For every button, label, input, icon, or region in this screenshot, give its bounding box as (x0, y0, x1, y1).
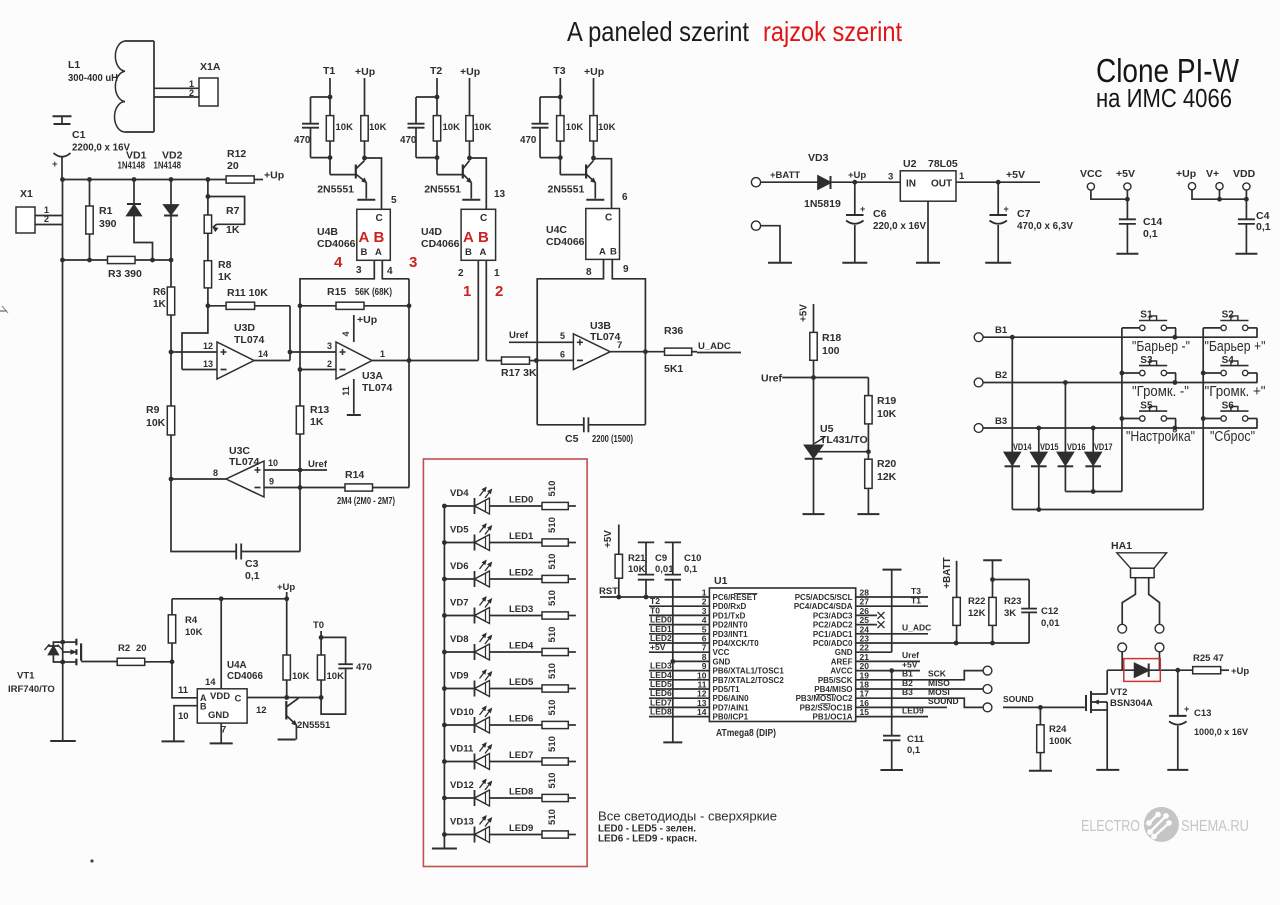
svg-text:LED6: LED6 (509, 714, 533, 725)
svg-text:1: 1 (959, 171, 965, 182)
svg-text:U4B: U4B (317, 226, 338, 238)
svg-text:R17 3K: R17 3K (501, 367, 537, 379)
svg-text:VD13: VD13 (450, 817, 474, 828)
svg-text:R13: R13 (310, 404, 329, 416)
svg-text:78L05: 78L05 (928, 158, 958, 170)
svg-text:470,0 x 6,3V: 470,0 x 6,3V (1017, 220, 1073, 232)
svg-text:PD5/T1: PD5/T1 (713, 685, 741, 694)
svg-text:PB1/OC1A: PB1/OC1A (812, 713, 852, 722)
svg-text:510: 510 (547, 809, 558, 825)
svg-text:1000,0 x 16V: 1000,0 x 16V (1194, 727, 1249, 738)
svg-text:B: B (200, 702, 207, 712)
svg-text:PC0/ADC0: PC0/ADC0 (813, 639, 853, 648)
svg-text:4: 4 (334, 254, 343, 271)
svg-text:10K: 10K (598, 122, 616, 133)
svg-text:"Барьер -": "Барьер -" (1132, 339, 1190, 355)
svg-text:LED1: LED1 (509, 531, 534, 542)
svg-text:VD5: VD5 (450, 525, 469, 536)
svg-text:B: B (465, 247, 472, 258)
svg-text:U_ADC: U_ADC (902, 623, 931, 633)
svg-text:2200 (1500): 2200 (1500) (592, 433, 633, 445)
svg-text:PB5/SCK: PB5/SCK (818, 676, 853, 685)
svg-text:6: 6 (622, 192, 628, 203)
svg-text:10K: 10K (185, 627, 203, 638)
svg-text:VCC: VCC (713, 648, 730, 657)
svg-text:VDD: VDD (210, 691, 230, 702)
svg-text:3: 3 (327, 341, 332, 351)
svg-text:U1: U1 (714, 575, 728, 587)
svg-text:+Up: +Up (460, 66, 480, 78)
svg-text:B: B (478, 229, 489, 246)
svg-text:4: 4 (387, 266, 393, 277)
svg-text:1K: 1K (310, 416, 324, 428)
svg-text:Clone PI-W: Clone PI-W (1096, 52, 1240, 89)
svg-text:R25 47: R25 47 (1193, 653, 1224, 664)
svg-text:R4: R4 (185, 615, 198, 626)
svg-text:R3 390: R3 390 (108, 268, 142, 280)
svg-text:LED6 - LED9 - красн.: LED6 - LED9 - красн. (598, 833, 697, 845)
svg-text:C13: C13 (1194, 708, 1211, 719)
svg-text:9: 9 (623, 264, 629, 275)
svg-text:510: 510 (547, 517, 558, 533)
svg-text:C1: C1 (72, 129, 86, 141)
svg-text:10: 10 (178, 711, 189, 722)
svg-text:B: B (361, 247, 368, 258)
svg-text:R7: R7 (226, 205, 240, 217)
svg-text:VD15: VD15 (1040, 442, 1059, 452)
svg-text:2: 2 (327, 359, 332, 369)
svg-text:C14: C14 (1143, 216, 1162, 228)
svg-text:LED8: LED8 (509, 787, 533, 798)
svg-text:PC2/ADC2: PC2/ADC2 (813, 621, 853, 630)
svg-text:GND: GND (835, 648, 853, 657)
svg-text:PD3/INT1: PD3/INT1 (713, 630, 749, 639)
svg-text:C3: C3 (245, 558, 259, 570)
svg-text:C10: C10 (684, 553, 701, 564)
svg-text:10: 10 (268, 458, 278, 468)
svg-text:2N5551: 2N5551 (424, 184, 461, 196)
svg-text:R36: R36 (664, 325, 683, 337)
svg-text:A: A (480, 247, 487, 258)
svg-text:14: 14 (697, 707, 707, 717)
svg-text:+5V: +5V (603, 530, 614, 548)
svg-text:AVCC: AVCC (830, 667, 852, 676)
svg-text:510: 510 (547, 736, 558, 752)
svg-text:R18: R18 (822, 332, 841, 344)
svg-text:2M4 (2M0 - 2M7): 2M4 (2M0 - 2M7) (337, 495, 395, 507)
svg-text:BSN304A: BSN304A (1110, 698, 1153, 709)
svg-text:510: 510 (547, 481, 558, 497)
svg-text:U3A: U3A (362, 370, 383, 382)
svg-text:Все светодиоды - сверхяркие: Все светодиоды - сверхяркие (598, 809, 777, 824)
svg-text:AREF: AREF (831, 657, 853, 666)
svg-text:+Up: +Up (355, 66, 375, 78)
svg-text:0,01: 0,01 (1041, 618, 1060, 629)
svg-text:A: A (599, 247, 606, 258)
svg-text:C9: C9 (655, 553, 667, 564)
svg-text:100: 100 (822, 345, 840, 357)
svg-text:rajzok szerint: rajzok szerint (763, 16, 902, 47)
svg-text:15: 15 (860, 707, 870, 717)
svg-text:PB4/MISO: PB4/MISO (814, 685, 852, 694)
svg-text:12: 12 (203, 341, 213, 351)
svg-text:12: 12 (256, 705, 267, 716)
svg-text:1: 1 (380, 349, 385, 359)
svg-text:B: B (374, 229, 385, 246)
svg-text:ATmega8 (DIP): ATmega8 (DIP) (716, 727, 776, 739)
svg-text:U4A: U4A (227, 660, 247, 671)
svg-text:1N4148: 1N4148 (118, 161, 146, 172)
svg-text:SOUND: SOUND (928, 696, 959, 706)
svg-text:100K: 100K (1049, 736, 1072, 747)
svg-text:+Up: +Up (848, 170, 866, 181)
svg-text:U4C: U4C (546, 224, 567, 236)
svg-text:R20: R20 (877, 458, 896, 470)
svg-text:3: 3 (409, 254, 417, 271)
svg-text:CD4066: CD4066 (421, 238, 460, 250)
svg-text:R19: R19 (877, 395, 896, 407)
svg-text:R8: R8 (218, 259, 232, 271)
svg-text:"Громк. -": "Громк. -" (1132, 384, 1189, 400)
svg-text:C12: C12 (1041, 606, 1058, 617)
svg-text:2: 2 (495, 283, 503, 300)
svg-text:2N5551: 2N5551 (548, 184, 585, 196)
svg-text:510: 510 (547, 554, 558, 570)
svg-text:GND: GND (208, 710, 229, 721)
svg-text:на ИМС 4066: на ИМС 4066 (1096, 85, 1232, 113)
svg-text:PD2/INT0: PD2/INT0 (713, 621, 749, 630)
svg-text:VT1: VT1 (17, 671, 35, 682)
svg-text:R15: R15 (327, 286, 346, 298)
svg-text:470: 470 (356, 662, 372, 673)
svg-text:+: + (860, 204, 865, 214)
svg-text:CD4066: CD4066 (546, 236, 585, 248)
svg-text:R21: R21 (628, 553, 646, 564)
svg-text:390: 390 (99, 218, 117, 230)
svg-text:+Up: +Up (1231, 666, 1249, 677)
svg-text:10K: 10K (292, 671, 310, 682)
svg-text:LED0: LED0 (509, 495, 533, 506)
svg-text:+: + (1004, 204, 1009, 214)
svg-text:"Громк. +": "Громк. +" (1205, 384, 1266, 400)
svg-text:VDD: VDD (1233, 168, 1256, 180)
svg-text:1N4148: 1N4148 (154, 161, 182, 172)
svg-text:10K: 10K (327, 671, 345, 682)
svg-text:B3: B3 (902, 687, 913, 697)
svg-text:PD4/XCK/T0: PD4/XCK/T0 (713, 639, 760, 648)
svg-text:10K: 10K (443, 122, 461, 133)
svg-text:CD4066: CD4066 (227, 671, 263, 682)
svg-text:TL074: TL074 (362, 382, 393, 394)
svg-text:1: 1 (494, 268, 500, 279)
svg-text:+BATT: +BATT (942, 557, 953, 588)
svg-text:R1: R1 (99, 205, 113, 217)
svg-text:+5V: +5V (650, 642, 666, 652)
svg-text:10K: 10K (877, 408, 897, 420)
svg-text:T3: T3 (553, 65, 565, 77)
svg-text:300-400 uH: 300-400 uH (68, 72, 118, 84)
svg-text:VD3: VD3 (808, 152, 829, 164)
svg-text:R23: R23 (1004, 596, 1021, 607)
svg-text:VD9: VD9 (450, 671, 468, 682)
svg-text:PD0/RxD: PD0/RxD (713, 602, 747, 611)
svg-text:PC4/ADC4/SDA: PC4/ADC4/SDA (794, 602, 853, 611)
svg-text:C11: C11 (907, 734, 925, 745)
svg-text:+: + (1184, 704, 1189, 714)
svg-text:OUT: OUT (931, 179, 952, 190)
svg-text:C7: C7 (1017, 208, 1031, 220)
svg-text:0,1: 0,1 (1256, 221, 1271, 233)
svg-text:5: 5 (391, 195, 397, 206)
svg-text:VD12: VD12 (450, 780, 474, 791)
svg-text:VD4: VD4 (450, 488, 469, 499)
svg-text:14: 14 (258, 349, 268, 359)
svg-text:VD11: VD11 (450, 744, 474, 755)
svg-text:R12: R12 (227, 148, 246, 160)
svg-text:2200,0 x 16V: 2200,0 x 16V (72, 142, 130, 154)
svg-text:6: 6 (560, 350, 565, 360)
svg-text:3: 3 (888, 172, 893, 183)
svg-text:HA1: HA1 (1111, 540, 1132, 552)
svg-text:B2: B2 (995, 370, 1007, 381)
svg-text:T2: T2 (430, 65, 442, 77)
svg-text:+: + (52, 159, 58, 170)
svg-text:2: 2 (189, 88, 194, 98)
svg-text:VD10: VD10 (450, 707, 474, 718)
svg-text:+Up: +Up (584, 66, 604, 78)
svg-text:LED2: LED2 (509, 568, 533, 579)
svg-text:9: 9 (269, 477, 274, 487)
svg-text:10K: 10K (474, 122, 492, 133)
svg-text:Uref: Uref (509, 330, 529, 341)
svg-text:R6: R6 (153, 287, 166, 298)
svg-text:20: 20 (227, 160, 239, 172)
svg-text:0,1: 0,1 (684, 564, 698, 575)
svg-text:U3D: U3D (234, 322, 255, 334)
svg-text:5K1: 5K1 (664, 363, 683, 375)
svg-text:13: 13 (203, 359, 213, 369)
svg-text:1K: 1K (153, 299, 167, 310)
svg-text:10K: 10K (146, 417, 166, 429)
svg-text:VD17: VD17 (1094, 442, 1113, 452)
svg-text:"Барьер +": "Барьер +" (1205, 339, 1266, 355)
svg-text:PB7/XTAL2/TOSC2: PB7/XTAL2/TOSC2 (713, 676, 785, 685)
svg-text:T0: T0 (313, 620, 324, 631)
svg-text:C: C (376, 213, 383, 224)
svg-text:U_ADC: U_ADC (698, 341, 731, 352)
svg-text:TL074: TL074 (590, 331, 621, 343)
svg-text:VT2: VT2 (1110, 687, 1127, 698)
svg-text:470: 470 (294, 135, 311, 146)
svg-text:VD6: VD6 (450, 561, 468, 572)
svg-text:LED5: LED5 (509, 677, 534, 688)
svg-text:PB6/XTAL1/TOSC1: PB6/XTAL1/TOSC1 (713, 667, 785, 676)
svg-text:1: 1 (463, 283, 471, 300)
svg-text:B1: B1 (995, 325, 1008, 336)
svg-text:A paneled szerint: A paneled szerint (567, 16, 749, 47)
svg-text:U2: U2 (903, 158, 917, 170)
svg-text:11: 11 (341, 386, 351, 396)
svg-text:TL074: TL074 (229, 456, 260, 468)
svg-text:14: 14 (205, 677, 216, 688)
svg-text:TL431/TO: TL431/TO (820, 434, 868, 446)
svg-text:C: C (235, 694, 242, 705)
svg-text:CD4066: CD4066 (317, 238, 356, 250)
svg-text:"Сброс": "Сброс" (1210, 429, 1255, 445)
svg-text:2N5551: 2N5551 (297, 720, 331, 731)
svg-text:10K: 10K (336, 122, 354, 133)
svg-text:VD16: VD16 (1067, 442, 1086, 452)
svg-text:510: 510 (547, 773, 558, 789)
svg-text:T1: T1 (323, 65, 335, 77)
svg-text:56K (68K): 56K (68K) (355, 286, 392, 298)
svg-text:510: 510 (547, 663, 558, 679)
svg-text:13: 13 (494, 189, 506, 200)
svg-text:1K: 1K (218, 271, 232, 283)
svg-text:+Up: +Up (277, 582, 295, 593)
svg-text:+5V: +5V (1006, 169, 1025, 181)
svg-text:Uref: Uref (308, 459, 328, 470)
svg-text:2: 2 (44, 214, 49, 224)
svg-text:ELECTRO: ELECTRO (1081, 818, 1140, 835)
svg-text:+5V: +5V (799, 304, 810, 322)
svg-text:T1: T1 (911, 595, 921, 605)
svg-text:VD14: VD14 (1013, 442, 1032, 452)
svg-text:B: B (610, 247, 617, 258)
svg-text:X1: X1 (20, 188, 33, 200)
svg-text:SOUND: SOUND (1003, 694, 1034, 704)
svg-text:LED8: LED8 (650, 707, 672, 717)
svg-text:C: C (480, 213, 487, 224)
svg-text:+Up: +Up (357, 314, 377, 326)
svg-text:VD7: VD7 (450, 598, 468, 609)
svg-text:470: 470 (400, 135, 417, 146)
svg-text:"Настройка": "Настройка" (1126, 429, 1195, 445)
svg-text:0,1: 0,1 (907, 745, 921, 756)
svg-text:510: 510 (547, 627, 558, 643)
svg-text:LED9: LED9 (902, 705, 924, 715)
svg-text:R24: R24 (1049, 724, 1067, 735)
svg-text:10K: 10K (628, 564, 646, 575)
svg-text:PD6/AIN0: PD6/AIN0 (713, 694, 750, 703)
svg-text:+5V: +5V (1116, 168, 1135, 180)
svg-text:LED4: LED4 (509, 641, 534, 652)
svg-text:PD7/AIN1: PD7/AIN1 (713, 703, 750, 712)
svg-text:3: 3 (356, 265, 362, 276)
svg-text:RST: RST (599, 586, 618, 597)
svg-text:IN: IN (906, 179, 916, 190)
svg-text:LED9: LED9 (509, 823, 533, 834)
svg-text:Uref: Uref (761, 373, 783, 385)
svg-text:+BATT: +BATT (770, 170, 800, 181)
svg-text:R9: R9 (146, 404, 160, 416)
svg-text:+Up: +Up (1176, 168, 1196, 180)
svg-text:510: 510 (547, 700, 558, 716)
svg-text:4: 4 (341, 331, 351, 336)
svg-text:20: 20 (136, 643, 147, 654)
svg-text:12K: 12K (968, 608, 986, 619)
svg-text:PC6/RESET: PC6/RESET (713, 593, 758, 602)
svg-text:2: 2 (458, 268, 464, 279)
svg-text:PD1/TxD: PD1/TxD (713, 611, 746, 620)
svg-text:10K: 10K (369, 122, 387, 133)
svg-text:TL074: TL074 (234, 334, 265, 346)
svg-text:0,1: 0,1 (245, 570, 260, 582)
svg-text:LED7: LED7 (509, 750, 533, 761)
svg-text:C6: C6 (873, 208, 887, 220)
svg-text:8: 8 (586, 267, 592, 278)
svg-text:C: C (605, 213, 612, 224)
svg-text:5: 5 (560, 331, 565, 341)
svg-text:PC5/ADC5/SCL: PC5/ADC5/SCL (795, 593, 853, 602)
svg-text:2N5551: 2N5551 (317, 184, 354, 196)
svg-text:VD8: VD8 (450, 634, 468, 645)
svg-text:PC1/ADC1: PC1/ADC1 (813, 630, 853, 639)
svg-text:510: 510 (547, 590, 558, 606)
svg-text:V+: V+ (1206, 168, 1219, 180)
svg-text:SHEMA.RU: SHEMA.RU (1181, 818, 1249, 835)
svg-text:R11 10K: R11 10K (227, 287, 268, 299)
svg-text:220,0 x 16V: 220,0 x 16V (873, 220, 926, 232)
svg-text:1K: 1K (226, 224, 240, 236)
svg-text:X1A: X1A (200, 61, 221, 73)
svg-text:A: A (359, 229, 370, 246)
svg-text:0,1: 0,1 (1143, 228, 1158, 240)
svg-text:L1: L1 (68, 59, 80, 71)
svg-text:1N5819: 1N5819 (804, 198, 841, 210)
svg-text:8: 8 (213, 468, 218, 478)
svg-text:PB0/ICP1: PB0/ICP1 (713, 713, 749, 722)
svg-text:VCC: VCC (1080, 168, 1103, 180)
svg-text:GND: GND (713, 657, 731, 666)
svg-text:12K: 12K (877, 471, 897, 483)
svg-text:U4D: U4D (421, 226, 442, 238)
svg-text:A: A (463, 229, 474, 246)
svg-text:IRF740/TO: IRF740/TO (8, 684, 55, 695)
svg-text:C5: C5 (565, 433, 579, 445)
svg-text:PB3/MOSI/OC2: PB3/MOSI/OC2 (796, 694, 853, 703)
svg-text:+Up: +Up (264, 170, 284, 182)
svg-text:R22: R22 (968, 596, 985, 607)
svg-text:R2: R2 (118, 643, 130, 654)
svg-text:470: 470 (520, 135, 537, 146)
svg-text:R14: R14 (345, 469, 364, 481)
svg-text:B3: B3 (995, 416, 1007, 427)
svg-text:11: 11 (178, 685, 189, 696)
svg-text:3K: 3K (1004, 608, 1016, 619)
svg-text:PB2/SS/OC1B: PB2/SS/OC1B (800, 703, 853, 712)
svg-text:LED3: LED3 (509, 604, 533, 615)
svg-text:A: A (375, 247, 382, 258)
svg-text:10K: 10K (566, 122, 584, 133)
svg-text:PC3/ADC3: PC3/ADC3 (813, 611, 853, 620)
svg-text:0,01: 0,01 (655, 564, 674, 575)
